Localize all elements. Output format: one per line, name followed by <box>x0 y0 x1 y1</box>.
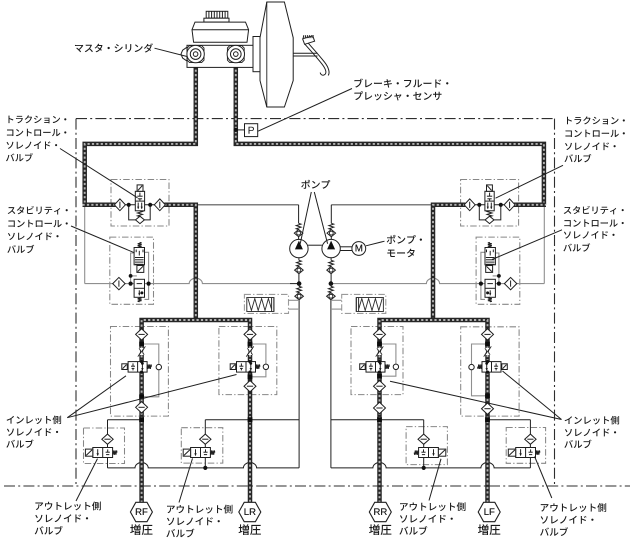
label pump <box>301 180 330 189</box>
leader outlet valve LR <box>179 458 193 502</box>
label stability control solenoid valve right <box>564 206 624 214</box>
thin line across traction valve right <box>464 204 515 206</box>
leader inlet valves left A <box>67 376 126 418</box>
outlet tap wire RF <box>108 419 142 421</box>
outlet valve dash-dot box RR <box>406 427 447 465</box>
wheel LR increase pressure <box>239 502 261 521</box>
stability valve supply wire left <box>84 205 86 284</box>
thin line across traction valve left <box>115 204 165 206</box>
check valve above pump left <box>296 223 301 229</box>
brake pedal arm and pad <box>303 36 315 44</box>
leader pump left <box>300 192 311 244</box>
leader inlet valves left B <box>67 375 236 418</box>
leader pump right <box>314 192 327 244</box>
wire linking pumps <box>308 244 322 246</box>
stability control valve dash-dot box right <box>476 237 520 304</box>
label traction control solenoid valve right <box>567 116 625 124</box>
stability valve supply wire right <box>543 205 545 284</box>
traction control valve dash-dot box right <box>461 180 519 227</box>
inlet valve bypass loop LF (wire) <box>472 344 488 396</box>
traction control solenoid valve left <box>114 185 165 224</box>
outlet solenoid valve RR <box>414 434 446 457</box>
return line right (wire with hops) <box>331 463 531 468</box>
label inlet solenoid valve right <box>565 416 619 425</box>
leader master cylinder <box>155 48 188 56</box>
label outlet solenoid valve far left <box>35 501 100 510</box>
inlet valve bypass loop RF (wire) <box>142 344 159 397</box>
master cylinder port2 boss and circles <box>227 46 244 63</box>
label brake fluid pressure sensor <box>354 79 448 88</box>
pump suction line right (wire) <box>331 204 433 206</box>
check valve below junction left <box>298 284 300 287</box>
pressure sensor label P <box>249 127 254 134</box>
leader traction valve right <box>496 165 564 198</box>
inlet solenoid valve RF <box>122 329 152 413</box>
accumulator right spring chamber <box>356 298 383 312</box>
pump motor M circle <box>352 242 366 256</box>
pump left <box>290 239 308 257</box>
outlet tap wire LF <box>488 419 531 421</box>
inlet valve dash-dot box RF <box>111 327 169 417</box>
traction control valve dash-dot box left <box>111 180 169 227</box>
pressure sensor stub wire <box>236 129 245 131</box>
leader outlet valve LF <box>535 457 552 499</box>
inlet solenoid valve LR <box>230 329 260 392</box>
inlet valve dash-dot box LF <box>461 327 519 416</box>
master cylinder body <box>187 45 253 67</box>
wheel RR increase pressure <box>369 502 391 521</box>
brake pipe: right split to wheels RR and LF <box>380 320 488 503</box>
brake fluid reservoir <box>192 22 249 42</box>
outlet solenoid valve LF <box>508 434 540 457</box>
master cylinder port1 boss and circles <box>187 46 204 63</box>
reservoir cap fins <box>204 11 229 22</box>
brake pipe: traction valve left inlet stub <box>83 203 116 208</box>
traction control solenoid valve right <box>464 185 515 224</box>
hydraulic unit boundary (dash-dot box) <box>4 119 630 486</box>
leader stability valve left <box>71 226 135 253</box>
inlet valve bypass loop RR (wire) <box>380 344 396 376</box>
return line left (wire with hops) <box>108 463 300 468</box>
accumulator left stubs <box>289 299 300 301</box>
brake pipe: left split to wheels RF and LR <box>142 320 250 503</box>
outlet valve dash-dot box RF <box>84 428 125 464</box>
accumulator left spring chamber <box>247 298 274 312</box>
label outlet solenoid valve right-center <box>400 502 465 511</box>
brake pipe: traction valve right inlet stub <box>514 203 546 208</box>
leader outlet valve RR <box>429 459 441 501</box>
outlet solenoid valve LR <box>183 434 215 457</box>
brake pipe: traction valve right to split <box>433 205 465 320</box>
leader traction valve left <box>60 149 138 198</box>
leader pressure sensor <box>258 89 352 132</box>
outlet valve dash-dot box LF <box>506 428 545 464</box>
stability control solenoid valve left <box>113 242 151 301</box>
leader inlet valves right A <box>390 381 562 419</box>
outlet valve output wires <box>107 458 109 468</box>
outlet solenoid valve RF <box>85 434 117 457</box>
inlet solenoid valve LF <box>478 329 508 415</box>
low pressure line right y=283.6 (wire with hop) <box>333 278 544 283</box>
pump right <box>322 239 340 257</box>
pipe junction dots <box>139 342 490 422</box>
wheel RF increase pressure <box>130 502 152 521</box>
brake booster front plate <box>253 37 260 72</box>
brake pipe: master cylinder port2 to traction valve right <box>236 52 544 205</box>
brake booster shell <box>260 2 293 107</box>
leader pump motor <box>366 241 385 246</box>
label stability control solenoid valve left <box>8 206 68 214</box>
accumulator left outer box <box>244 294 288 313</box>
inlet valve bypass loop LR (wire) <box>250 344 266 377</box>
check valve above pump right <box>329 223 334 229</box>
label outlet solenoid valve far right <box>541 503 606 512</box>
pump motor label M <box>356 245 363 252</box>
inlet valve dash-dot box RR <box>351 327 403 395</box>
outlet tap wire RR from accumulator drop <box>331 419 424 421</box>
accumulator right stubs <box>331 299 342 301</box>
label pump motor <box>387 235 422 244</box>
label master cylinder <box>75 43 153 52</box>
low pressure line left y=283.6 (wire with hop) <box>85 278 290 283</box>
outlet tap wire LR to accumulator drop <box>205 419 299 421</box>
accumulator drop wire left <box>298 298 300 468</box>
check valve below junction right <box>330 284 332 287</box>
wheel LF increase pressure <box>478 502 500 521</box>
brake pipe: traction valve left to split <box>164 205 196 320</box>
pressure sensor P box <box>245 124 258 137</box>
label inlet solenoid valve left <box>7 415 61 424</box>
pump suction line left (wire) <box>196 204 299 206</box>
inlet valve dash-dot box LR <box>219 327 277 395</box>
accumulator right outer box <box>342 294 386 313</box>
check valve below pump right <box>330 258 332 261</box>
accumulator drop wire right <box>330 298 332 468</box>
brake pipe: master cylinder port1 to traction valve left <box>85 52 196 205</box>
label outlet solenoid valve center <box>167 505 232 514</box>
stability control valve dash-dot box left <box>110 237 154 304</box>
leader inlet valves right B <box>503 371 562 420</box>
leader stability valve right <box>492 230 562 260</box>
check valve below pump left <box>298 258 300 261</box>
label traction control solenoid valve left <box>8 115 66 123</box>
extra filter diamond below RR inlet valve <box>374 402 386 413</box>
outlet valve dash-dot box LR <box>181 428 223 463</box>
inlet solenoid valve RR <box>360 329 390 392</box>
motor shaft double line <box>340 246 352 248</box>
pedal push rod <box>294 52 318 54</box>
stability control solenoid valve right <box>479 242 517 301</box>
leader outlet valve RF <box>76 459 98 501</box>
